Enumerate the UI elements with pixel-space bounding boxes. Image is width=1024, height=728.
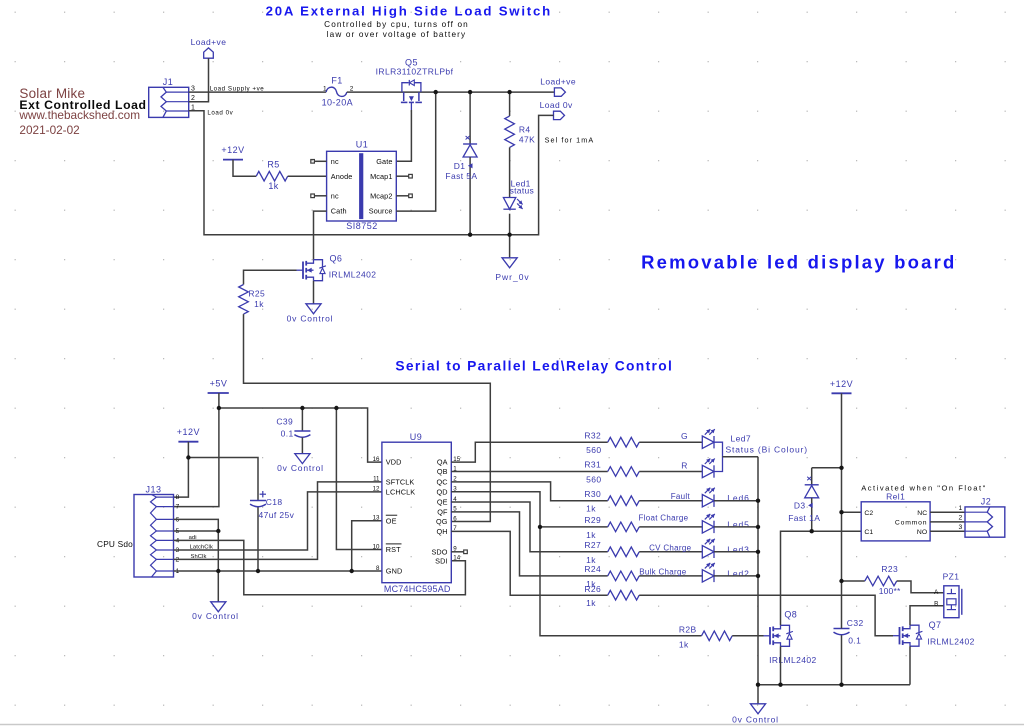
diode D1 Fast 5A — [445, 92, 477, 235]
F1 pin numbers 1 2 — [323, 85, 354, 92]
svg-text:Anode: Anode — [331, 172, 353, 181]
wire Q8 drain up to relay C1 — [781, 531, 862, 625]
svg-text:560: 560 — [586, 445, 601, 455]
wire C18 bottom to gnd row — [257, 507, 259, 571]
svg-text:Led7: Led7 — [731, 433, 752, 443]
svg-text:0v Control: 0v Control — [277, 463, 324, 473]
transistor Q6 IRLML2402 — [297, 253, 377, 280]
svg-text:R31: R31 — [584, 460, 601, 470]
wire led cathode bus down to 0v rail — [757, 457, 759, 685]
svg-text:11: 11 — [373, 476, 380, 483]
svg-text:Load 0v: Load 0v — [207, 110, 233, 117]
svg-text:F1: F1 — [331, 75, 342, 85]
wire bottom 0v rail — [758, 684, 910, 686]
wire Q6 gate to R25 — [244, 270, 297, 284]
svg-text:GND: GND — [386, 567, 403, 576]
author block: 2021-02-02 — [19, 123, 79, 137]
wire Led2 cathode to led bus — [714, 575, 758, 577]
title: Removable led display board — [641, 251, 956, 272]
ground 0v Control (J13) — [192, 602, 239, 621]
svg-text:8: 8 — [176, 494, 180, 501]
wire J13 pin4 adi to U9 SDI — [174, 540, 466, 594]
svg-text:IRLML2402: IRLML2402 — [329, 269, 377, 279]
title: Serial to Parallel Led\Relay Control — [395, 359, 673, 374]
connector J2 — [965, 496, 1005, 537]
svg-text:13: 13 — [373, 515, 380, 522]
svg-text:3: 3 — [959, 524, 963, 531]
svg-text:6: 6 — [453, 515, 457, 522]
svg-text:CPU Sdo: CPU Sdo — [97, 539, 133, 549]
net label Bulk Charge — [639, 567, 687, 576]
svg-text:+5V: +5V — [210, 379, 228, 389]
wire R5 to U1 Anode — [288, 175, 327, 177]
net label G (Led7 colour) — [681, 431, 688, 441]
wire gnd row J13 pin1 to U9 GND — [174, 570, 382, 572]
ground 0v Control (Q6 source) — [287, 281, 334, 324]
resistor R24 1k — [584, 564, 639, 589]
svg-text:U9: U9 — [410, 432, 423, 442]
wire Load 0v port down to 0v rail — [189, 111, 554, 235]
capacitor C39 0.1 — [276, 408, 310, 438]
resistor R31 560 — [584, 460, 639, 485]
svg-text:Fault: Fault — [671, 492, 691, 501]
svg-text:R26: R26 — [584, 584, 601, 594]
svg-text:R4: R4 — [519, 124, 531, 134]
IC U9 MC74HC595AD — [373, 432, 461, 594]
node Load+ve (right port) — [540, 76, 576, 96]
power +12V (left bottom) — [177, 427, 200, 442]
svg-text:D1: D1 — [454, 161, 466, 171]
svg-text:Load 0v: Load 0v — [540, 100, 573, 110]
svg-text:2: 2 — [959, 515, 963, 522]
svg-text:SDI: SDI — [435, 556, 447, 565]
svg-text:Load+ve: Load+ve — [191, 37, 227, 47]
svg-text:Led3: Led3 — [727, 544, 750, 554]
svg-text:1k: 1k — [586, 504, 596, 514]
svg-text:0.1: 0.1 — [281, 428, 294, 438]
resistor R23 100 — [842, 564, 901, 596]
svg-text:Mcap1: Mcap1 — [370, 172, 392, 181]
subtitle line 1 — [324, 20, 469, 29]
svg-text:CV Charge: CV Charge — [649, 543, 692, 552]
wire U9 QD to R29 and R2B — [451, 492, 701, 636]
wire R24 to LED anode — [639, 575, 702, 577]
op-isolator U1 SI8752 — [327, 140, 397, 232]
resistor R5 1k — [256, 159, 288, 191]
svg-text:47uf 25v: 47uf 25v — [259, 510, 295, 520]
svg-text:RST: RST — [386, 545, 401, 554]
svg-text:Gate: Gate — [376, 157, 392, 166]
svg-text:+12V: +12V — [177, 427, 200, 437]
wire +12V down through relay branches to C32 — [841, 393, 843, 684]
net label LatchClk — [190, 545, 213, 551]
power +12V (right) — [830, 379, 853, 394]
U1 nc stub pin top-left — [311, 160, 327, 164]
wire U1 Source up to drain rail — [396, 92, 435, 211]
svg-text:560: 560 — [586, 475, 601, 485]
transistor Q5 IRLR3110ZTRLPbf (high side P-FET) — [376, 57, 454, 110]
svg-text:J2: J2 — [981, 496, 992, 506]
svg-text:B: B — [934, 601, 939, 608]
svg-text:SDO: SDO — [431, 547, 447, 556]
svg-text:C18: C18 — [266, 497, 283, 507]
title: 20A External High Side Load Switch — [266, 4, 552, 19]
svg-text:20A External High Side Load Sw: 20A External High Side Load Switch — [266, 4, 552, 19]
author block: www.thebackshed.com — [18, 108, 140, 122]
svg-text:R29: R29 — [584, 515, 601, 525]
svg-text:R32: R32 — [584, 430, 601, 440]
svg-text:1k: 1k — [586, 598, 596, 608]
wire J13 pin3 LatchClk to U9 LCHCLK — [174, 492, 382, 550]
resistor R4 47K — [505, 92, 535, 147]
wire R27 to LED anode — [639, 551, 702, 553]
ground 0v Control (bottom) — [732, 685, 779, 725]
author block: Ext Controlled Load — [19, 98, 146, 112]
svg-text:Status (Bi Colour): Status (Bi Colour) — [726, 444, 808, 454]
wire U9 QA to R32 — [451, 442, 607, 462]
wire +12V to R5 — [233, 160, 256, 177]
net label Fault — [671, 492, 691, 501]
svg-text:nc: nc — [331, 191, 339, 200]
svg-text:Load+ve: Load+ve — [540, 76, 576, 86]
svg-text:1k: 1k — [586, 530, 596, 540]
svg-text:1: 1 — [323, 85, 327, 92]
net label adi — [189, 535, 197, 541]
resistor R27 1k — [584, 540, 639, 565]
net label CV Charge — [649, 543, 692, 552]
svg-text:7: 7 — [176, 504, 180, 511]
PZ1 pin labels A B — [934, 589, 939, 608]
svg-text:2021-02-02: 2021-02-02 — [19, 123, 79, 137]
wire U9 OE to gnd row — [352, 521, 382, 571]
piezo PZ1 — [943, 571, 962, 617]
svg-text:R5: R5 — [267, 159, 279, 169]
U9 SDO stub pin — [451, 550, 467, 554]
svg-text:PZ1: PZ1 — [943, 571, 960, 581]
wire Led7 common cathode bracket — [714, 442, 758, 471]
diode D3 Fast 1A — [788, 468, 841, 531]
wire R26 to Q7 gate — [639, 595, 893, 636]
U1 nc stub pin bottom-left — [311, 194, 327, 198]
wire +12V to relay C2 — [842, 511, 862, 513]
svg-text:NC: NC — [917, 510, 927, 517]
wire Rel1 NO to J2 pin3 — [930, 530, 965, 532]
wire Q7 source to 0v rail — [909, 646, 911, 685]
wire J13 pin6 to pin5 junction — [174, 519, 219, 531]
wire U1 Cath down to Q6 drain — [314, 211, 327, 260]
wire +12V to C18 — [188, 458, 258, 501]
svg-text:Led5: Led5 — [727, 519, 750, 529]
LED Led7 — [702, 429, 715, 448]
svg-text:C32: C32 — [847, 618, 864, 628]
svg-text:A: A — [934, 589, 939, 596]
svg-text:QD: QD — [436, 487, 447, 496]
svg-text:Q6: Q6 — [330, 253, 343, 263]
svg-text:U1: U1 — [356, 140, 369, 150]
svg-text:IRLML2402: IRLML2402 — [927, 637, 975, 647]
J1 pin numbers 3 2 1 — [191, 86, 195, 112]
svg-text:LCHCLK: LCHCLK — [386, 488, 415, 497]
label Led3 — [727, 544, 750, 554]
svg-text:100**: 100** — [879, 586, 901, 596]
net label R (Led7 colour) — [681, 460, 688, 470]
net label CPU Sdo — [97, 539, 133, 549]
svg-text:Serial to Parallel Led\Relay C: Serial to Parallel Led\Relay Control — [395, 359, 673, 374]
svg-text:Bulk Charge: Bulk Charge — [639, 567, 687, 576]
U1 Mcap1 stub pin — [396, 174, 412, 178]
svg-text:C2: C2 — [864, 510, 873, 517]
svg-text:J1: J1 — [163, 77, 174, 87]
svg-text:Led6: Led6 — [727, 493, 750, 503]
wire Led6 cathode to led bus — [714, 500, 758, 502]
wire J13 pin5 row — [174, 530, 219, 532]
svg-text:12: 12 — [373, 486, 380, 493]
svg-text:Fast 1A: Fast 1A — [788, 513, 820, 523]
ground Pwr_0v — [495, 235, 529, 283]
resistor R29 1k — [584, 515, 639, 540]
svg-text:law or over voltage of battery: law or over voltage of battery — [327, 30, 467, 39]
svg-text:0v Control: 0v Control — [287, 313, 334, 323]
wire Led3 cathode to led bus — [714, 551, 758, 553]
transistor Q8 IRLML2402 — [764, 610, 817, 666]
wire R32 to LED anode — [639, 441, 702, 443]
svg-text:SFTCLK: SFTCLK — [386, 478, 415, 487]
wire +12V down to J13 pin 8 — [174, 442, 189, 497]
wire U9 QE to R27 — [451, 502, 607, 552]
wire U9 QH to R26 — [451, 531, 607, 595]
wire Rel1 Common to J2 pin2 — [930, 521, 965, 523]
svg-text:Cath: Cath — [331, 207, 347, 216]
svg-text:Fast 5A: Fast 5A — [445, 171, 477, 181]
net label Float Charge — [639, 514, 689, 523]
svg-text:C39: C39 — [276, 416, 293, 426]
svg-text:+12V: +12V — [221, 145, 244, 155]
svg-text:C1: C1 — [864, 529, 873, 536]
U1 Mcap2 stub pin — [396, 194, 412, 198]
wire R31 to LED anode — [639, 471, 702, 473]
svg-text:QA: QA — [437, 458, 448, 467]
svg-text:Pwr_0v: Pwr_0v — [495, 272, 529, 282]
svg-text:Led2: Led2 — [727, 568, 750, 578]
svg-text:nc: nc — [331, 157, 339, 166]
svg-text:QB: QB — [437, 467, 448, 476]
wire Q7 drain up to PZ1 B — [910, 606, 944, 626]
svg-text:Controlled by cpu, turns off o: Controlled by cpu, turns off on — [324, 20, 469, 29]
svg-text:SI8752: SI8752 — [346, 221, 378, 231]
svg-text:D3: D3 — [794, 500, 806, 510]
LED Led7-red — [702, 459, 715, 478]
resistor R26 1k — [584, 584, 639, 608]
svg-text:Q8: Q8 — [784, 610, 797, 620]
connector J1 — [149, 77, 189, 117]
svg-text:Common: Common — [895, 520, 927, 527]
net label ShClk — [191, 554, 207, 560]
wire U9 QB to R31 — [451, 471, 607, 473]
junction dots top rail and 0v rail — [434, 90, 512, 237]
svg-text:QC: QC — [436, 478, 447, 487]
ground 0v Control (C39) — [277, 438, 324, 474]
svg-text:MC74HC595AD: MC74HC595AD — [384, 584, 451, 594]
wire Q8 source to 0v rail — [780, 646, 782, 684]
svg-text:16: 16 — [373, 456, 380, 463]
junction dots bottom — [186, 406, 844, 687]
svg-text:Q7: Q7 — [929, 620, 942, 630]
svg-text:NO: NO — [917, 529, 927, 536]
svg-text:0v Control: 0v Control — [732, 715, 779, 725]
wire Load+ve port to J1 pin 2 — [189, 58, 209, 101]
svg-text:R2B: R2B — [679, 625, 697, 635]
svg-text:QE: QE — [437, 498, 448, 507]
resistor R25 1k — [239, 285, 265, 315]
svg-text:www.thebackshed.com: www.thebackshed.com — [18, 108, 140, 122]
svg-text:QG: QG — [436, 517, 448, 526]
svg-text:1: 1 — [959, 505, 963, 512]
svg-text:R23: R23 — [881, 564, 898, 574]
wire Led5 cathode to led bus — [714, 526, 758, 528]
svg-text:R27: R27 — [584, 540, 601, 550]
net label Load 0v — [207, 110, 233, 117]
svg-text:+12V: +12V — [830, 379, 853, 389]
fuse F1 — [322, 75, 353, 107]
wire Q5 gate lead down to U1 Gate pin — [396, 110, 411, 161]
svg-text:G: G — [681, 431, 688, 441]
svg-text:10-20A: 10-20A — [322, 98, 353, 108]
label Led2 — [727, 568, 750, 578]
wire R25 bottom to QG of U9 — [244, 314, 491, 521]
svg-text:Mcap2: Mcap2 — [370, 191, 392, 200]
LED Led5 — [702, 514, 715, 533]
svg-text:Source: Source — [369, 207, 393, 216]
resistor R32 560 — [584, 430, 639, 455]
relay Rel1 — [861, 491, 930, 541]
wire U9 QF to R24 — [451, 512, 607, 576]
svg-text:R24: R24 — [584, 564, 601, 574]
LED Led2 — [702, 563, 715, 582]
svg-text:0v Control: 0v Control — [192, 611, 239, 621]
node Load+ve (top port) — [191, 37, 227, 58]
wire R23 to PZ1 A — [897, 581, 944, 593]
wire +5V down to J13 pin 7 (crossing) — [174, 393, 219, 507]
wire top rail J1 pin3 to fuse F1 — [189, 91, 326, 93]
node Load 0v (right port) — [540, 100, 573, 119]
svg-text:R25: R25 — [248, 288, 265, 298]
wire U9 QC to R30 — [451, 482, 607, 501]
svg-text:1k: 1k — [254, 299, 264, 309]
wire R29 to LED anode — [639, 526, 702, 528]
svg-text:1k: 1k — [679, 639, 689, 649]
wire +5V rail to U9 RST — [336, 408, 382, 550]
resistor R30 1k — [584, 489, 639, 514]
svg-text:1k: 1k — [268, 181, 278, 191]
net label Load Supply +ve — [210, 85, 265, 92]
subtitle line 2 — [327, 30, 467, 39]
label Led5 — [727, 519, 750, 529]
svg-text:QH: QH — [436, 527, 447, 536]
transistor Q7 IRLML2402 — [893, 620, 975, 646]
label Led7 Status (Bi Colour) — [726, 433, 808, 454]
wire Rel1 NC to J2 pin1 — [930, 511, 965, 513]
wire fuse F1 to Q5 and Load+ve port — [347, 91, 555, 93]
note Activated when "On Float" — [861, 483, 987, 492]
LED Led3 — [702, 539, 715, 558]
svg-text:IRLR3110ZTRLPbf: IRLR3110ZTRLPbf — [376, 67, 454, 77]
author block: Solar Mike — [19, 86, 85, 101]
svg-text:QF: QF — [437, 508, 448, 517]
svg-text:47K: 47K — [519, 135, 535, 145]
LED Led6 — [702, 488, 715, 507]
svg-text:status: status — [510, 186, 534, 196]
wire R30 to LED anode — [639, 500, 702, 502]
svg-text:OE: OE — [386, 516, 397, 525]
connector J13 — [134, 485, 174, 577]
wire junction down to 0v Control ground — [217, 531, 219, 602]
svg-text:Removable led display board: Removable led display board — [641, 251, 956, 272]
capacitor C32 0.1 — [834, 618, 864, 646]
svg-text:Rel1: Rel1 — [886, 491, 905, 501]
LED Led1 status — [503, 147, 534, 234]
J2 pin numbers 1 2 3 — [959, 505, 963, 531]
wire +5V rail to U9 VDD — [219, 408, 382, 462]
svg-text:0.1: 0.1 — [848, 635, 861, 645]
svg-text:R30: R30 — [584, 489, 601, 499]
label Led6 — [727, 493, 750, 503]
resistor R2B 1k — [679, 625, 732, 650]
svg-text:8: 8 — [376, 565, 380, 572]
power +5V — [208, 379, 229, 393]
svg-text:J13: J13 — [145, 485, 161, 495]
svg-text:Activated when "On Float": Activated when "On Float" — [861, 483, 987, 492]
J13 pin numbers 8..1 — [176, 494, 180, 575]
net label Sel for 1mA — [545, 136, 595, 145]
capacitor C18 47uf 25v — [250, 491, 295, 520]
svg-text:IRLML2402: IRLML2402 — [769, 655, 817, 665]
wire J13 pin2 ShClk to U9 SFTCLK — [174, 482, 382, 560]
power +12V (top) — [221, 145, 244, 160]
svg-text:R: R — [681, 460, 688, 470]
svg-text:Float Charge: Float Charge — [639, 514, 689, 523]
svg-text:10: 10 — [373, 543, 380, 550]
svg-text:14: 14 — [453, 555, 460, 562]
svg-text:Sel for 1mA: Sel for 1mA — [545, 136, 595, 145]
svg-text:VDD: VDD — [386, 458, 402, 467]
wire R2B to Q8 gate — [732, 635, 763, 637]
